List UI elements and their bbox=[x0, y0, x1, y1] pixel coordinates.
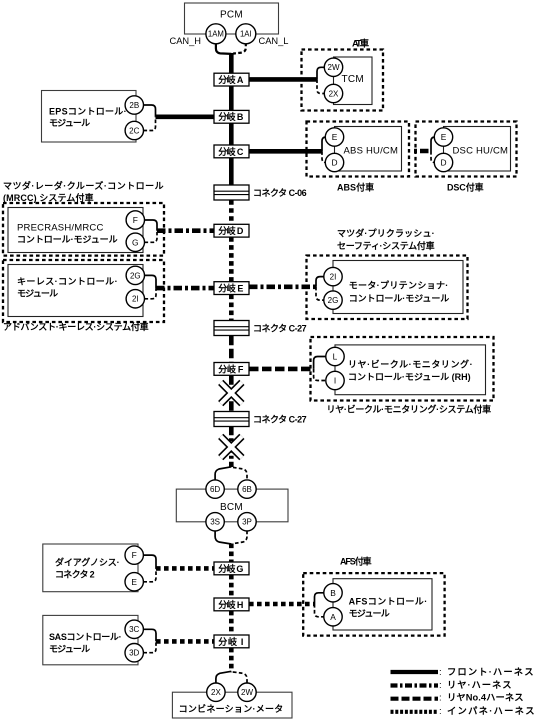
wire elbow bus to BCM pin 6B (CAN_L) bbox=[233, 467, 247, 480]
pin 2C of EPS module bbox=[125, 121, 143, 139]
module DSC HU/CM box bbox=[444, 127, 511, 172]
wire CAN bus branch H to branch I bbox=[229, 611, 234, 635]
wire elbows from keyless pins to branch E bbox=[145, 275, 157, 298]
svg-text:モジュール: モジュール bbox=[17, 289, 60, 299]
svg-text:F: F bbox=[133, 215, 138, 225]
legend instrument panel harness line bbox=[391, 705, 537, 717]
wire CAN bus branch A to branch B bbox=[229, 86, 234, 111]
svg-text:インパネ·ハーネス: インパネ·ハーネス bbox=[447, 705, 536, 716]
wire elbow BCM pin 3P to bus (CAN_L) bbox=[233, 531, 247, 544]
svg-text:フロント·ハーネス: フロント·ハーネス bbox=[447, 667, 535, 677]
svg-text:G: G bbox=[132, 237, 139, 247]
wire elbows from EPS pins to branch B bbox=[144, 105, 156, 131]
label DSC vehicle bbox=[447, 181, 485, 192]
svg-text:分岐 B: 分岐 B bbox=[218, 111, 245, 122]
pin G of PRECRASH module bbox=[126, 233, 144, 251]
pin 2W of TCM bbox=[324, 58, 342, 76]
svg-text:2C: 2C bbox=[129, 126, 139, 135]
wire CAN bus PCM to branch A (front harness) bbox=[229, 53, 234, 73]
svg-text:モジュール: モジュール bbox=[349, 608, 392, 618]
pin D of DSC HU/CM bbox=[434, 153, 452, 171]
svg-text:分岐 I: 分岐 I bbox=[218, 636, 245, 647]
pin 1AM of PCM bbox=[206, 24, 226, 44]
node branch G bbox=[214, 562, 249, 575]
system box MRCC (dashed) bbox=[3, 203, 164, 256]
svg-text::: : bbox=[439, 667, 442, 678]
svg-text:1AM: 1AM bbox=[208, 30, 224, 39]
pin F of diagnosis connector 2 bbox=[125, 546, 143, 564]
svg-text:DSC付車: DSC付車 bbox=[447, 181, 485, 192]
connector C-27 lower bbox=[214, 412, 308, 427]
module PCM box bbox=[185, 3, 279, 34]
svg-text:PCM: PCM bbox=[220, 10, 243, 21]
node branch E bbox=[214, 282, 249, 295]
svg-text:2B: 2B bbox=[129, 101, 139, 110]
system box DSC vehicle (dashed) bbox=[416, 122, 517, 177]
svg-text:A: A bbox=[330, 612, 336, 622]
svg-text:D: D bbox=[440, 158, 446, 168]
pin 3D of SAS module bbox=[125, 644, 143, 662]
wire CAN bus branch C to connector C-06 bbox=[229, 158, 234, 185]
svg-text:2W: 2W bbox=[328, 63, 340, 72]
svg-text:6D: 6D bbox=[210, 485, 220, 494]
svg-text:I: I bbox=[334, 376, 336, 386]
system box pre-crash safety (dashed) bbox=[307, 256, 468, 320]
pin 2G of motor pretensioner module bbox=[324, 291, 342, 309]
svg-text:(MRCC) システム付車: (MRCC) システム付車 bbox=[3, 192, 95, 203]
pin F of PRECRASH module bbox=[126, 211, 144, 229]
pin E of ABS HU/CM bbox=[325, 128, 343, 146]
label Mazda radar cruise control system line2 bbox=[3, 192, 95, 203]
wire PRECRASH/MRCC module to branch D (rear harness) bbox=[157, 228, 214, 233]
node branch F bbox=[214, 363, 249, 376]
pin A of AFS module bbox=[324, 608, 342, 626]
svg-text:AFS付車: AFS付車 bbox=[340, 556, 373, 567]
svg-text:分岐 A: 分岐 A bbox=[218, 74, 245, 85]
svg-text:ダイアグノシス·: ダイアグノシス· bbox=[55, 557, 121, 568]
pin I of rear vehicle monitoring module bbox=[326, 371, 344, 389]
svg-text:コネクタ C-06: コネクタ C-06 bbox=[253, 187, 308, 198]
svg-text:D: D bbox=[331, 158, 337, 168]
svg-text:2G: 2G bbox=[130, 271, 141, 280]
svg-text:3C: 3C bbox=[129, 625, 139, 634]
wire stub to DSC HU/CM (rear harness) bbox=[414, 149, 431, 154]
pin D of ABS HU/CM bbox=[325, 153, 343, 171]
svg-text:マツダ·レーダ·クルーズ·コントロール: マツダ·レーダ·クルーズ·コントロール bbox=[3, 180, 165, 191]
node branch A bbox=[214, 73, 249, 86]
svg-text:B: B bbox=[330, 588, 336, 598]
module keyless control module box bbox=[8, 265, 143, 317]
svg-text:CAN_L: CAN_L bbox=[259, 36, 289, 46]
node branch I bbox=[214, 635, 249, 648]
wire elbows from diagnosis connector pins to branch G bbox=[143, 555, 156, 582]
svg-text:2I: 2I bbox=[132, 295, 139, 304]
node branch D bbox=[214, 224, 249, 237]
legend front harness line bbox=[391, 667, 536, 678]
wire elbows from SAS pins to branch I bbox=[143, 629, 156, 652]
label AFS vehicle bbox=[340, 556, 373, 567]
module combination meter box bbox=[172, 692, 292, 718]
svg-text:モータ·プリテンショナ·: モータ·プリテンショナ· bbox=[349, 280, 450, 291]
svg-text:DSC HU/CM: DSC HU/CM bbox=[453, 146, 509, 157]
pin 2W of combination meter bbox=[238, 683, 256, 701]
svg-text:L: L bbox=[333, 352, 338, 362]
svg-text:2G: 2G bbox=[328, 296, 339, 305]
legend rear harness line bbox=[391, 680, 514, 691]
pin 2B of EPS module bbox=[125, 96, 143, 114]
pin 6B of BCM bbox=[238, 480, 256, 498]
wire CAN bus connector C-27 to branch F (rear No.4 harness) bbox=[229, 336, 234, 363]
wire elbow bus to meter pin 2W (CAN_L) bbox=[233, 672, 247, 684]
pin 1AI of PCM bbox=[236, 24, 256, 44]
svg-text:セーフティ·システム付車: セーフティ·システム付車 bbox=[337, 240, 436, 251]
pin 2X of TCM bbox=[324, 84, 342, 102]
label CAN_H bbox=[170, 36, 202, 46]
wire pin 1AM to bus (CAN_H) bbox=[216, 43, 231, 54]
wire diagnosis connector 2 to branch G (instrument panel harness) bbox=[156, 566, 214, 571]
wire CAN bus branch E to connector C-27 upper bbox=[229, 295, 234, 321]
svg-text:E: E bbox=[332, 132, 338, 142]
label Mazda pre-crash safety system line2 bbox=[337, 240, 436, 251]
wire elbows to rear vehicle monitoring pins bbox=[314, 357, 326, 381]
svg-text:3P: 3P bbox=[242, 518, 252, 527]
wire keyless module to branch E (rear harness) bbox=[156, 286, 214, 291]
svg-text:モジュール: モジュール bbox=[49, 118, 92, 128]
svg-text:アドバンスト·キーレス·システム付車: アドバンスト·キーレス·システム付車 bbox=[3, 321, 150, 332]
label rear vehicle monitoring system bbox=[327, 404, 493, 415]
svg-text:コンビネーション·メータ: コンビネーション·メータ bbox=[179, 703, 285, 714]
label advanced keyless system bbox=[3, 321, 150, 332]
wire branch H to AFS module (instrument panel harness) bbox=[249, 602, 315, 607]
svg-text:CAN_H: CAN_H bbox=[170, 36, 202, 46]
svg-text:6B: 6B bbox=[242, 485, 252, 494]
label ABS vehicle bbox=[337, 181, 376, 192]
wire CAN bus BCM to branch G (instrument panel harness) bbox=[229, 544, 234, 563]
module motor pretensioner box bbox=[333, 261, 463, 314]
node branch B bbox=[214, 110, 249, 123]
svg-text:ABS HU/CM: ABS HU/CM bbox=[344, 146, 399, 157]
wire elbow BCM pin 3S to bus (CAN_H) bbox=[215, 531, 231, 544]
twisted pair crossover upper bbox=[221, 382, 242, 403]
connector C-27 upper bbox=[214, 321, 308, 336]
pin 2I of motor pretensioner module bbox=[324, 267, 342, 285]
wire branch E to motor pretensioner module (rear harness) bbox=[249, 284, 316, 289]
svg-text:PRECRASH/MRCC: PRECRASH/MRCC bbox=[17, 222, 104, 233]
svg-text::: : bbox=[439, 693, 442, 704]
module SAS control module box bbox=[43, 615, 138, 664]
svg-text:分岐 H: 分岐 H bbox=[218, 599, 245, 610]
svg-text:モジュール: モジュール bbox=[49, 644, 92, 654]
wire CAN bus connector C-06 to branch D (instrument panel harness) bbox=[229, 200, 234, 224]
svg-text:キーレス·コントロール·: キーレス·コントロール· bbox=[17, 276, 119, 286]
svg-text:AT車: AT車 bbox=[352, 38, 371, 49]
module diagnosis connector 2 box bbox=[43, 544, 138, 592]
module rear vehicle monitoring box bbox=[335, 345, 486, 395]
svg-text:EPSコントロール·: EPSコントロール· bbox=[49, 106, 128, 116]
pin 3P of BCM bbox=[238, 513, 256, 531]
wire CAN bus branch G to branch H bbox=[229, 575, 234, 598]
svg-text:SASコントロール·: SASコントロール· bbox=[49, 632, 123, 642]
wire CAN bus branch B to branch C bbox=[229, 123, 234, 145]
wire elbows to TCM pins bbox=[317, 67, 324, 93]
wire elbow bus to meter pin 2X (CAN_H) bbox=[216, 671, 231, 684]
svg-text::: : bbox=[439, 680, 442, 691]
legend rear No.4 harness line bbox=[391, 693, 526, 704]
wire branch A to TCM (front harness) bbox=[249, 77, 317, 82]
svg-text:分岐 C: 分岐 C bbox=[218, 146, 245, 157]
label Mazda pre-crash safety system line1 bbox=[337, 228, 436, 239]
svg-text:コネクタ 2: コネクタ 2 bbox=[55, 568, 96, 579]
svg-text:F: F bbox=[132, 550, 137, 560]
svg-text::: : bbox=[439, 706, 442, 717]
label CAN_L bbox=[259, 36, 289, 46]
module AFS control module box bbox=[333, 579, 432, 630]
wire branch C to ABS HU/CM (front harness) bbox=[249, 149, 322, 154]
svg-text:分岐 F: 分岐 F bbox=[218, 363, 245, 374]
module EPS control module box bbox=[42, 91, 137, 143]
svg-text:E: E bbox=[441, 132, 447, 142]
pin E of diagnosis connector 2 bbox=[125, 573, 143, 591]
wire elbow bus to BCM pin 6D (CAN_H) bbox=[215, 467, 231, 481]
svg-text:マツダ·プリクラッシュ·: マツダ·プリクラッシュ· bbox=[337, 228, 436, 239]
pin B of AFS module bbox=[324, 584, 342, 602]
svg-text:ABS付車: ABS付車 bbox=[337, 181, 376, 192]
svg-text:リヤ·ハーネス: リヤ·ハーネス bbox=[447, 680, 513, 690]
pin 2G of keyless module bbox=[126, 266, 144, 284]
svg-text:分岐 E: 分岐 E bbox=[218, 283, 245, 294]
module PRECRASH/MRCC box bbox=[8, 208, 143, 253]
pin E of DSC HU/CM bbox=[434, 128, 452, 146]
wire CAN bus branch F to connector C-27 lower bbox=[229, 375, 234, 411]
pin 3S of BCM bbox=[206, 513, 224, 531]
pin 2I of keyless module bbox=[126, 290, 144, 308]
svg-text:コントロール·モジュール: コントロール·モジュール bbox=[17, 234, 119, 244]
node branch H bbox=[214, 598, 249, 611]
pin 3C of SAS module bbox=[125, 620, 143, 638]
module TCM box bbox=[334, 57, 373, 105]
svg-text:リヤ·ビークル·モニタリング·システム付車: リヤ·ビークル·モニタリング·システム付車 bbox=[327, 404, 493, 415]
connector C-06 bbox=[214, 185, 308, 200]
pin 2X of combination meter bbox=[207, 683, 225, 701]
svg-text:コネクタ C-27: コネクタ C-27 bbox=[253, 322, 308, 333]
svg-text:3D: 3D bbox=[129, 649, 139, 658]
svg-text:コネクタ C-27: コネクタ C-27 bbox=[253, 413, 308, 424]
svg-text:E: E bbox=[131, 577, 137, 587]
wire elbows from PRECRASH pins to branch D bbox=[145, 220, 158, 242]
label Mazda radar cruise control system line1 bbox=[3, 180, 165, 191]
wire SAS module to branch I (instrument panel harness) bbox=[156, 639, 214, 644]
svg-text:リヤNo.4ハーネス: リヤNo.4ハーネス bbox=[447, 693, 525, 703]
node branch C bbox=[214, 145, 249, 158]
svg-text:2X: 2X bbox=[329, 89, 339, 98]
wire CAN bus branch D to branch E bbox=[229, 237, 234, 282]
svg-text:2W: 2W bbox=[241, 688, 253, 697]
svg-text:コントロール·モジュール (RH): コントロール·モジュール (RH) bbox=[348, 372, 472, 382]
wire elbows to AFS pins bbox=[315, 593, 324, 617]
system box rear vehicle monitoring (dashed) bbox=[311, 337, 494, 401]
svg-text:コントロール·モジュール: コントロール·モジュール bbox=[349, 294, 451, 304]
module BCM box bbox=[176, 489, 288, 522]
system box AT vehicle (dashed) bbox=[302, 50, 384, 111]
svg-text:3S: 3S bbox=[210, 518, 220, 527]
svg-text:分岐 D: 分岐 D bbox=[218, 225, 245, 236]
system box advanced keyless (dashed) bbox=[3, 260, 164, 322]
svg-text:リヤ·ビークル·モニタリング·: リヤ·ビークル·モニタリング· bbox=[348, 358, 474, 369]
label AT vehicle bbox=[352, 38, 371, 49]
wire CAN bus branch I to combination meter bbox=[229, 648, 234, 673]
wire elbows to ABS pins bbox=[322, 137, 326, 163]
wire elbows to motor pretensioner pins bbox=[316, 277, 324, 301]
svg-text:2I: 2I bbox=[330, 272, 337, 281]
svg-text:TCM: TCM bbox=[342, 74, 365, 85]
svg-text:1AI: 1AI bbox=[240, 30, 252, 39]
svg-text:分岐 G: 分岐 G bbox=[218, 563, 245, 574]
system box AFS vehicle (dashed) bbox=[303, 573, 444, 636]
wire branch F to rear vehicle monitoring module (rear No.4 harness) bbox=[249, 367, 314, 372]
pin L of rear vehicle monitoring module bbox=[326, 347, 344, 365]
svg-text:BCM: BCM bbox=[220, 502, 243, 513]
wire pin 1AI to bus (CAN_L) bbox=[233, 43, 246, 54]
wire CAN bus connector C-27 to BCM (rear harness) bbox=[229, 427, 234, 467]
module ABS HU/CM box bbox=[335, 127, 402, 172]
wire elbows to DSC pins bbox=[431, 137, 435, 163]
system box ABS vehicle (dashed) bbox=[307, 122, 410, 177]
pin 6D of BCM bbox=[206, 480, 224, 498]
wire EPS module to branch B (front harness) bbox=[156, 115, 215, 120]
svg-text:2X: 2X bbox=[211, 688, 221, 697]
svg-text:AFSコントロール·: AFSコントロール· bbox=[349, 596, 429, 606]
twisted pair crossover lower bbox=[221, 436, 242, 457]
